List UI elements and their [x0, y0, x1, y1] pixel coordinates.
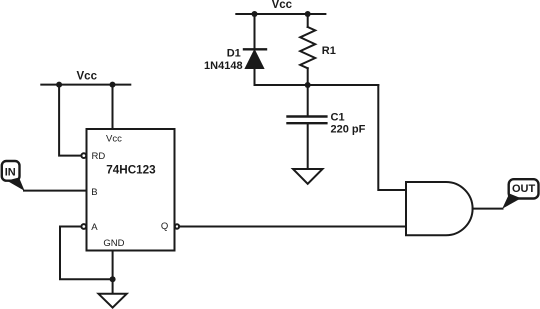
svg-text:Vcc: Vcc	[272, 0, 293, 11]
svg-text:Q: Q	[161, 221, 168, 232]
svg-text:74HC123: 74HC123	[106, 164, 156, 177]
svg-text:Vcc: Vcc	[77, 71, 98, 83]
svg-text:Vcc: Vcc	[106, 134, 122, 145]
svg-text:B: B	[91, 187, 97, 198]
svg-text:220 pF: 220 pF	[331, 123, 366, 135]
svg-text:GND: GND	[103, 238, 124, 249]
svg-text:RD: RD	[92, 151, 106, 162]
svg-text:IN: IN	[5, 166, 16, 178]
svg-text:A: A	[91, 222, 98, 233]
svg-text:C1: C1	[331, 111, 345, 123]
svg-text:OUT: OUT	[512, 183, 536, 195]
svg-text:R1: R1	[322, 45, 336, 57]
svg-text:D1: D1	[227, 48, 241, 60]
svg-text:1N4148: 1N4148	[204, 60, 243, 72]
